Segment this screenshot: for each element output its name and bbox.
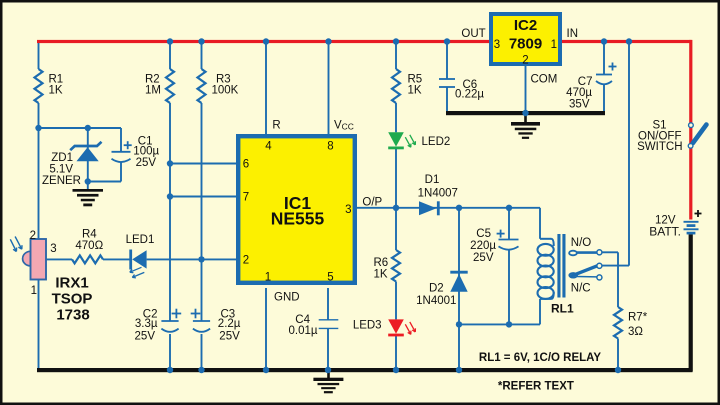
svg-text:IRX1: IRX1 bbox=[55, 275, 88, 292]
svg-text:*REFER TEXT: *REFER TEXT bbox=[498, 380, 574, 392]
svg-text:35V: 35V bbox=[569, 99, 590, 111]
svg-text:5: 5 bbox=[327, 272, 333, 284]
svg-text:C5: C5 bbox=[476, 228, 491, 240]
svg-text:1: 1 bbox=[551, 39, 557, 51]
svg-text:SWITCH: SWITCH bbox=[637, 141, 682, 153]
svg-text:1: 1 bbox=[31, 285, 37, 297]
svg-text:1N4007: 1N4007 bbox=[418, 188, 458, 200]
svg-text:RL1 = 6V, 1C/O RELAY: RL1 = 6V, 1C/O RELAY bbox=[479, 352, 602, 364]
svg-text:2: 2 bbox=[522, 55, 528, 67]
svg-text:470Ω: 470Ω bbox=[75, 240, 103, 252]
svg-text:O/P: O/P bbox=[362, 197, 382, 209]
svg-text:GND: GND bbox=[274, 292, 300, 304]
svg-text:N/C: N/C bbox=[571, 283, 591, 295]
svg-text:3: 3 bbox=[494, 39, 500, 51]
svg-text:R7*: R7* bbox=[628, 312, 648, 324]
svg-text:470µ: 470µ bbox=[566, 87, 592, 99]
svg-text:1738: 1738 bbox=[56, 307, 89, 324]
svg-text:25V: 25V bbox=[136, 157, 157, 169]
svg-text:D1: D1 bbox=[425, 174, 440, 186]
svg-text:25V: 25V bbox=[473, 252, 494, 264]
svg-text:ZENER: ZENER bbox=[42, 175, 81, 187]
svg-text:2: 2 bbox=[30, 230, 36, 242]
svg-text:3Ω: 3Ω bbox=[628, 326, 643, 338]
svg-text:100µ: 100µ bbox=[133, 145, 159, 157]
svg-text:LED1: LED1 bbox=[126, 234, 155, 246]
svg-text:25V: 25V bbox=[135, 331, 156, 343]
svg-text:3: 3 bbox=[345, 204, 351, 216]
svg-text:OUT: OUT bbox=[461, 28, 485, 40]
svg-text:2: 2 bbox=[243, 254, 249, 266]
svg-text:4: 4 bbox=[265, 140, 272, 152]
svg-text:D2: D2 bbox=[429, 282, 444, 294]
svg-text:2.2µ: 2.2µ bbox=[218, 318, 241, 330]
svg-text:VCC: VCC bbox=[334, 120, 354, 132]
svg-text:BATT.: BATT. bbox=[649, 225, 681, 239]
svg-text:1M: 1M bbox=[145, 85, 161, 97]
svg-text:6: 6 bbox=[243, 159, 249, 171]
svg-text:1K: 1K bbox=[374, 269, 388, 281]
svg-text:R6: R6 bbox=[374, 257, 389, 269]
svg-text:NE555: NE555 bbox=[271, 209, 325, 229]
svg-text:1N4001: 1N4001 bbox=[416, 295, 456, 307]
svg-text:R: R bbox=[272, 120, 280, 132]
svg-text:220µ: 220µ bbox=[470, 240, 496, 252]
svg-text:7809: 7809 bbox=[509, 36, 542, 53]
svg-text:LED3: LED3 bbox=[353, 320, 382, 332]
svg-text:ZD1: ZD1 bbox=[51, 152, 73, 164]
svg-text:S1: S1 bbox=[653, 119, 667, 131]
svg-text:RL1: RL1 bbox=[551, 302, 574, 316]
svg-text:3.3µ: 3.3µ bbox=[135, 318, 158, 330]
svg-text:0.22µ: 0.22µ bbox=[455, 89, 484, 101]
svg-text:N/O: N/O bbox=[571, 237, 592, 249]
svg-text:1K: 1K bbox=[408, 85, 422, 97]
svg-text:0.01µ: 0.01µ bbox=[288, 325, 317, 337]
svg-text:3: 3 bbox=[50, 243, 56, 255]
svg-text:100K: 100K bbox=[212, 85, 239, 97]
svg-text:COM: COM bbox=[531, 74, 558, 86]
svg-text:IC2: IC2 bbox=[514, 17, 537, 34]
svg-text:7: 7 bbox=[243, 191, 249, 203]
svg-text:1K: 1K bbox=[49, 85, 63, 97]
svg-text:R4: R4 bbox=[82, 228, 97, 240]
svg-text:8: 8 bbox=[327, 140, 333, 152]
svg-text:LED2: LED2 bbox=[422, 136, 451, 148]
svg-text:TSOP: TSOP bbox=[52, 291, 93, 308]
svg-text:IN: IN bbox=[567, 28, 579, 40]
svg-text:1: 1 bbox=[265, 272, 271, 284]
svg-text:25V: 25V bbox=[219, 331, 240, 343]
svg-text:5.1V: 5.1V bbox=[49, 164, 73, 176]
